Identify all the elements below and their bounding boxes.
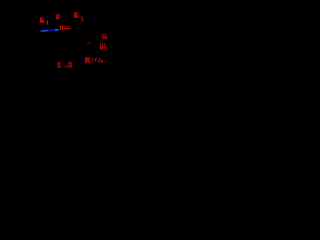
ammeter M1 label [100, 34, 107, 40]
svg-text:4: 4 [97, 57, 101, 65]
ammeter M2 label [100, 43, 108, 52]
svg-text:3: 3 [90, 57, 94, 65]
node B (bottom formula E u R) [57, 61, 74, 70]
junction (dim noise patch) [86, 42, 91, 45]
svg-text:E: E [57, 61, 62, 70]
svg-text:1: 1 [46, 20, 49, 27]
resistor R1 label [40, 17, 49, 26]
resistor R3 label [74, 12, 84, 23]
background [0, 0, 120, 80]
EMF E label [55, 13, 60, 19]
node (arrowhead) [55, 29, 60, 32]
wire (blue annotation arrow shaft) [40, 30, 56, 31]
svg-text:R: R [68, 62, 74, 70]
svg-text:3: 3 [80, 15, 84, 23]
resistor R3+4 label [85, 57, 108, 65]
node A (mid formula R= blob) [60, 26, 71, 30]
svg-text:2: 2 [105, 46, 108, 52]
wire (bright segment of arrow shaft) [42, 30, 49, 33]
junction (dim dot) [36, 33, 37, 34]
